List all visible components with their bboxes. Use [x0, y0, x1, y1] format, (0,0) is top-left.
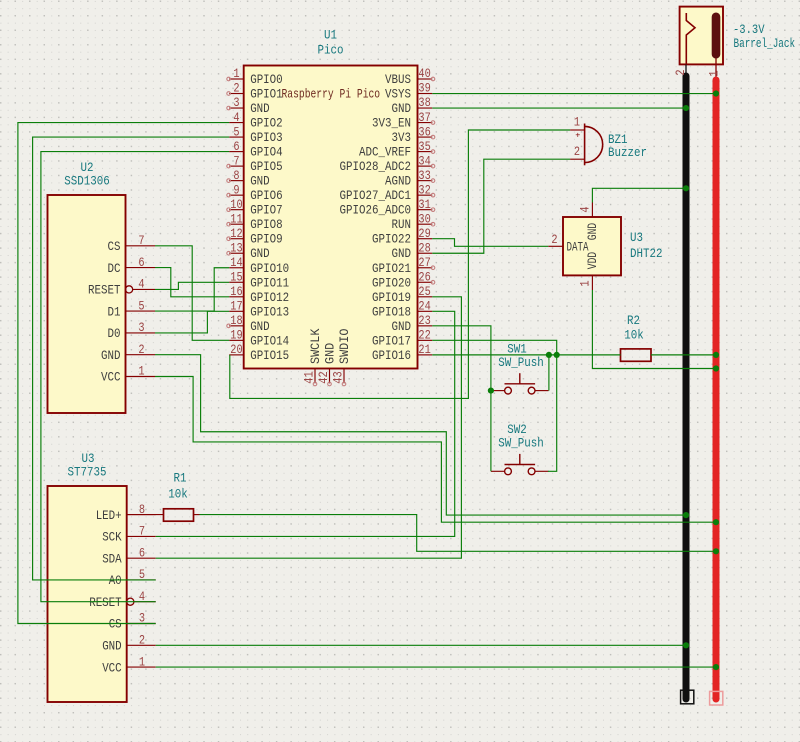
svg-text:GND: GND: [392, 247, 412, 261]
svg-text:GPIO4: GPIO4: [250, 146, 283, 160]
svg-text:10: 10: [230, 198, 242, 212]
svg-text:GPIO16: GPIO16: [372, 349, 411, 363]
svg-text:GPIO0: GPIO0: [250, 73, 283, 87]
svg-text:GPIO7: GPIO7: [250, 204, 283, 218]
svg-text:34: 34: [418, 154, 430, 168]
svg-text:42: 42: [317, 371, 331, 383]
svg-text:17: 17: [230, 300, 242, 314]
svg-text:37: 37: [418, 111, 430, 125]
svg-text:41: 41: [303, 371, 317, 383]
svg-text:2: 2: [551, 233, 557, 247]
svg-text:1: 1: [233, 67, 239, 81]
svg-text:Barrel_Jack: Barrel_Jack: [734, 37, 796, 51]
svg-text:GPIO5: GPIO5: [250, 160, 283, 174]
svg-text:4: 4: [138, 278, 144, 292]
svg-text:GND: GND: [250, 247, 270, 261]
svg-text:22: 22: [418, 329, 430, 343]
svg-text:ST7735: ST7735: [68, 465, 107, 480]
svg-text:30: 30: [418, 212, 430, 226]
svg-text:VBUS: VBUS: [385, 73, 411, 87]
svg-text:GPIO13: GPIO13: [250, 305, 289, 319]
svg-text:AGND: AGND: [385, 175, 411, 189]
svg-text:2: 2: [574, 145, 580, 159]
svg-text:U3: U3: [630, 230, 643, 245]
svg-text:D0: D0: [108, 327, 121, 341]
svg-text:VCC: VCC: [101, 371, 121, 385]
svg-text:Buzzer: Buzzer: [608, 145, 647, 160]
svg-text:9: 9: [233, 183, 239, 197]
svg-text:8: 8: [233, 169, 239, 183]
svg-text:12: 12: [230, 227, 242, 241]
svg-text:4: 4: [578, 206, 592, 212]
svg-text:5: 5: [233, 125, 239, 139]
svg-text:24: 24: [418, 300, 430, 314]
svg-text:4: 4: [233, 111, 239, 125]
svg-text:RUN: RUN: [392, 218, 412, 232]
svg-text:D1: D1: [108, 305, 121, 319]
svg-text:GPIO20: GPIO20: [372, 276, 411, 290]
svg-text:GPIO28_ADC2: GPIO28_ADC2: [340, 160, 412, 174]
svg-text:3V3_EN: 3V3_EN: [372, 117, 411, 131]
svg-text:GPIO2: GPIO2: [250, 117, 283, 131]
svg-text:GPIO27_ADC1: GPIO27_ADC1: [340, 189, 412, 203]
svg-text:SDA: SDA: [102, 552, 122, 566]
svg-text:26: 26: [418, 270, 430, 284]
svg-text:-3.3V: -3.3V: [733, 23, 765, 37]
svg-text:GPIO21: GPIO21: [372, 262, 411, 276]
svg-text:23: 23: [418, 314, 430, 328]
svg-text:GPIO22: GPIO22: [372, 233, 411, 247]
svg-text:1: 1: [578, 280, 592, 286]
svg-text:GPIO11: GPIO11: [250, 276, 289, 290]
svg-text:31: 31: [418, 198, 430, 212]
svg-text:RESET: RESET: [89, 596, 122, 610]
svg-text:+: +: [575, 131, 580, 141]
svg-text:GPIO19: GPIO19: [372, 291, 411, 305]
svg-text:DC: DC: [108, 262, 121, 276]
svg-text:SSD1306: SSD1306: [64, 174, 110, 189]
svg-text:GPIO12: GPIO12: [250, 291, 289, 305]
svg-text:2: 2: [139, 634, 145, 648]
svg-text:U1: U1: [324, 28, 337, 43]
svg-text:GPIO26_ADC0: GPIO26_ADC0: [340, 204, 412, 218]
svg-text:SCK: SCK: [102, 531, 122, 545]
svg-text:13: 13: [230, 241, 242, 255]
svg-text:GPIO10: GPIO10: [250, 262, 289, 276]
svg-text:40: 40: [418, 67, 430, 81]
svg-text:GPIO3: GPIO3: [250, 131, 283, 145]
svg-text:3: 3: [233, 96, 239, 110]
svg-text:28: 28: [418, 241, 430, 255]
svg-text:7: 7: [138, 234, 144, 248]
svg-text:CS: CS: [108, 240, 121, 254]
svg-text:35: 35: [418, 140, 430, 154]
svg-text:2: 2: [138, 343, 144, 357]
svg-text:SW_Push: SW_Push: [498, 355, 544, 370]
svg-text:38: 38: [418, 96, 430, 110]
svg-text:SW_Push: SW_Push: [498, 435, 544, 450]
svg-text:15: 15: [230, 270, 242, 284]
svg-text:GND: GND: [392, 320, 412, 334]
svg-text:7: 7: [139, 525, 145, 539]
svg-text:Raspberry Pi Pico: Raspberry Pi Pico: [282, 88, 381, 102]
svg-text:GPIO15: GPIO15: [250, 349, 289, 363]
svg-text:25: 25: [418, 285, 430, 299]
svg-text:18: 18: [230, 314, 242, 328]
svg-text:GND: GND: [392, 102, 412, 116]
svg-text:3: 3: [138, 321, 144, 335]
svg-text:2: 2: [674, 69, 688, 75]
svg-text:GPIO9: GPIO9: [250, 233, 283, 247]
svg-text:GND: GND: [250, 320, 270, 334]
svg-text:10k: 10k: [624, 328, 644, 343]
svg-text:32: 32: [418, 183, 430, 197]
svg-text:7: 7: [233, 154, 239, 168]
svg-text:GND: GND: [102, 640, 122, 654]
svg-text:DHT22: DHT22: [630, 246, 663, 261]
svg-text:GND: GND: [324, 343, 338, 364]
svg-text:GPIO18: GPIO18: [372, 305, 411, 319]
svg-text:3V3: 3V3: [392, 131, 412, 145]
svg-text:GPIO17: GPIO17: [372, 334, 411, 348]
svg-text:VCC: VCC: [102, 661, 122, 675]
svg-text:GND: GND: [250, 102, 270, 116]
svg-text:A0: A0: [109, 574, 122, 588]
svg-text:20: 20: [230, 343, 242, 357]
svg-text:11: 11: [230, 212, 242, 226]
svg-text:6: 6: [139, 546, 145, 560]
svg-text:GPIO6: GPIO6: [250, 189, 283, 203]
svg-text:21: 21: [418, 343, 430, 357]
svg-text:33: 33: [418, 169, 430, 183]
svg-text:GND: GND: [586, 223, 600, 240]
svg-text:GND: GND: [250, 175, 270, 189]
svg-text:Pico: Pico: [318, 43, 344, 58]
svg-text:ADC_VREF: ADC_VREF: [359, 146, 411, 160]
svg-text:6: 6: [138, 256, 144, 270]
svg-text:LED+: LED+: [96, 509, 122, 523]
svg-text:39: 39: [418, 82, 430, 96]
svg-text:VDD: VDD: [586, 252, 600, 269]
svg-text:SWCLK: SWCLK: [309, 328, 323, 364]
svg-text:1: 1: [574, 116, 580, 130]
svg-text:6: 6: [233, 140, 239, 154]
svg-text:16: 16: [230, 285, 242, 299]
svg-text:GPIO1: GPIO1: [250, 88, 283, 102]
svg-text:19: 19: [230, 329, 242, 343]
svg-text:GND: GND: [101, 349, 121, 363]
svg-text:1: 1: [138, 365, 144, 379]
svg-text:36: 36: [418, 125, 430, 139]
svg-text:GPIO8: GPIO8: [250, 218, 283, 232]
svg-text:43: 43: [332, 371, 346, 383]
svg-text:29: 29: [418, 227, 430, 241]
svg-text:14: 14: [230, 256, 242, 270]
svg-text:1: 1: [139, 655, 145, 669]
svg-text:2: 2: [233, 82, 239, 96]
svg-text:5: 5: [138, 299, 144, 313]
svg-text:SWDIO: SWDIO: [338, 329, 352, 365]
svg-text:10k: 10k: [168, 487, 188, 502]
svg-text:1: 1: [707, 70, 721, 76]
svg-text:27: 27: [418, 256, 430, 270]
svg-text:RESET: RESET: [88, 284, 121, 298]
svg-text:GPIO14: GPIO14: [250, 334, 289, 348]
svg-text:CS: CS: [109, 618, 122, 632]
svg-text:R2: R2: [627, 313, 640, 328]
svg-text:VSYS: VSYS: [385, 88, 411, 102]
svg-text:R1: R1: [174, 471, 187, 486]
